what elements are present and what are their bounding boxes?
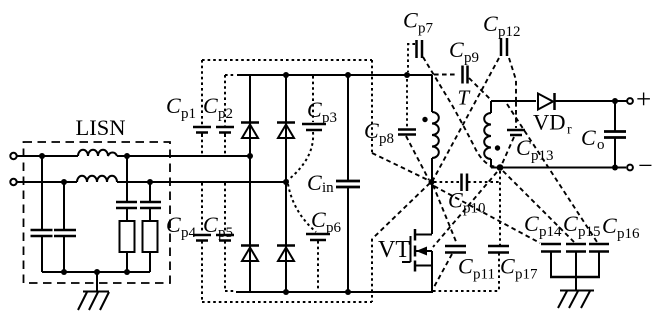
- dotted parasitic net: [202, 60, 372, 302]
- wire Cp2 bottom lead: [224, 134, 226, 155]
- LISN capacitor C1 branch wire: [41, 156, 43, 272]
- dotted box right lower vertical: [371, 239, 373, 302]
- wire Cp3 bottom lead: [288, 132, 313, 180]
- wire Cp11 top lead to node A: [433, 185, 457, 244]
- wire Cp10 left lead to node A: [434, 181, 459, 183]
- MOSFET VT gate bar: [410, 236, 412, 262]
- primary polarity dot: [422, 117, 427, 122]
- wire Cp6 bottom lead: [317, 241, 319, 291]
- wire Cp9 left lead: [434, 74, 458, 76]
- wire Cp8 bottom lead to node A: [406, 136, 429, 180]
- wire Cp13 top lead: [515, 102, 517, 128]
- svg-text:C: C: [403, 8, 418, 33]
- input terminal top: [10, 153, 16, 159]
- capacitor Cp1: [193, 127, 211, 137]
- MOSFET VT gate lead: [402, 261, 411, 263]
- svg-text:o: o: [597, 137, 605, 153]
- wire Cp12 right lead to secondary top: [509, 58, 516, 100]
- label Cp2: [203, 93, 233, 122]
- secondary winding lead bottom: [490, 159, 492, 168]
- svg-text:+: +: [636, 84, 651, 114]
- svg-text:C: C: [458, 254, 473, 279]
- wire Cp1 bottom lead: [201, 134, 203, 155]
- svg-text:p3: p3: [322, 110, 337, 126]
- label Cp7: [403, 8, 434, 37]
- node A drain convergence dot: [429, 179, 435, 185]
- capacitor Cp8: [398, 130, 416, 135]
- LISN C4-R2 link: [149, 208, 151, 221]
- DC- bottom rail: [236, 291, 433, 293]
- diode VD2 upper right: [277, 123, 295, 139]
- svg-text:p15: p15: [578, 224, 601, 240]
- wire Cp9 right lead to secondary top: [469, 78, 490, 99]
- dashed diag node A to box bottom: [372, 183, 430, 239]
- LISN capacitor C3: [116, 202, 137, 208]
- svg-text:T: T: [458, 86, 471, 110]
- label Cp5: [203, 212, 233, 241]
- capacitor Cp11: [445, 246, 466, 253]
- label Cin: [307, 170, 334, 196]
- label Cp14: [524, 211, 562, 240]
- node B secondary bottom dot: [497, 164, 504, 171]
- LISN R2 to rail: [149, 252, 151, 272]
- label Cp12: [483, 11, 521, 40]
- svg-text:C: C: [483, 11, 498, 36]
- capacitor Cp4: [193, 235, 211, 241]
- capacitor Cp14: [541, 244, 561, 252]
- label Cp11: [458, 254, 495, 283]
- svg-text:C: C: [166, 212, 181, 237]
- capacitor Cp9: [463, 66, 468, 84]
- svg-text:C: C: [448, 188, 463, 213]
- svg-text:C: C: [203, 93, 218, 118]
- svg-text:p7: p7: [418, 21, 434, 37]
- svg-text:C: C: [524, 211, 539, 236]
- wire input bottom to inductor L2: [17, 181, 77, 183]
- svg-text:LISN: LISN: [76, 115, 126, 140]
- svg-text:p2: p2: [218, 106, 233, 122]
- svg-text:VT: VT: [378, 237, 410, 263]
- svg-text:p8: p8: [379, 131, 394, 147]
- svg-text:C: C: [307, 170, 322, 195]
- wire L1 to bridge node AC1: [117, 155, 250, 157]
- svg-text:p10: p10: [463, 201, 486, 217]
- wire Cp5 bottom lead: [225, 241, 236, 291]
- wire Cp3 top lead: [312, 76, 314, 122]
- label T: [458, 86, 471, 110]
- DC+ top rail: [237, 74, 432, 76]
- secondary polarity dot: [495, 145, 500, 150]
- capacitor Cin leads: [347, 75, 349, 292]
- LISN resistor R2: [143, 221, 158, 252]
- label Cp6: [311, 207, 342, 236]
- secondary bottom wire: [491, 167, 626, 169]
- svg-text:C: C: [166, 93, 181, 118]
- LISN resistor R1: [120, 221, 135, 252]
- svg-text:p9: p9: [464, 50, 479, 66]
- node dot wire2-cap branch: [61, 179, 67, 185]
- node dot leg2 top: [283, 72, 289, 78]
- svg-text:p17: p17: [515, 267, 538, 283]
- LISN capacitor C2 branch wire: [63, 182, 65, 272]
- wire Cp6 top lead: [288, 184, 316, 232]
- capacitor Cp16: [589, 244, 609, 252]
- svg-text:p13: p13: [531, 148, 554, 164]
- svg-text:C: C: [500, 254, 515, 279]
- node dot leg2 bottom: [283, 289, 289, 295]
- svg-text:C: C: [581, 125, 596, 150]
- input terminal bottom: [10, 179, 16, 185]
- dashed diag node B to Cp15: [503, 171, 574, 242]
- node dot wire1 after L1: [124, 153, 130, 159]
- svg-text:p11: p11: [473, 267, 495, 283]
- wire Cp4 bottom lead / box bottom left: [201, 241, 203, 302]
- secondary circuit top wire: [491, 100, 536, 102]
- label Cp13: [516, 135, 554, 164]
- gnd bar right: [550, 276, 600, 278]
- LISN capacitor C4: [140, 202, 161, 208]
- transformer secondary winding: [484, 113, 491, 159]
- capacitor Cp10: [462, 174, 468, 192]
- svg-text:p16: p16: [617, 226, 640, 242]
- LISN bottom rail: [42, 271, 150, 273]
- node dot output +: [612, 98, 618, 104]
- label Cp1: [166, 93, 196, 122]
- capacitor Co leads: [614, 101, 616, 168]
- wire VDr to + node: [555, 100, 628, 102]
- inductor L1: [78, 150, 117, 156]
- node dot AC1 on leg1: [247, 153, 253, 159]
- svg-text:p5: p5: [218, 225, 233, 241]
- wire input top to inductor L1: [17, 155, 78, 157]
- capacitor Cp6: [306, 234, 330, 240]
- label minus: [638, 151, 653, 180]
- svg-text:C: C: [311, 207, 326, 232]
- transformer secondary winding lead top: [490, 101, 492, 113]
- node dot Cin bottom: [345, 289, 351, 295]
- capacitor Co: [604, 132, 626, 138]
- dashed diag box to node A: [372, 153, 430, 181]
- LISN C3-R1 link: [126, 208, 128, 221]
- Cp15 lead to gnd bar: [575, 252, 577, 278]
- wire Cp7 right lead to node B: [423, 57, 496, 167]
- svg-text:C: C: [563, 211, 578, 236]
- wire node B to Cp17 top: [499, 171, 501, 245]
- wire Cp11 bottom lead to source corner: [434, 254, 452, 287]
- capacitor Cp5: [216, 235, 234, 241]
- label VDr: [533, 110, 572, 138]
- MOSFET VT channel contacts: [414, 229, 417, 272]
- ground symbol LISN: [78, 292, 109, 311]
- svg-text:r: r: [567, 123, 572, 138]
- wire Cp2 top lead: [225, 75, 236, 126]
- svg-text:p14: p14: [539, 224, 562, 240]
- MOSFET VT source lead: [415, 251, 432, 292]
- LISN RC branch 4 wire top: [149, 182, 151, 202]
- MOSFET VT body lead with arrow: [415, 247, 432, 256]
- svg-text:p6: p6: [326, 220, 342, 236]
- capacitor Cp3: [302, 124, 326, 130]
- wire L2 to bridge node AC2: [117, 181, 286, 183]
- ground lead LISN: [96, 272, 98, 291]
- dashed source rail extension: [433, 290, 499, 292]
- svg-text:C: C: [364, 118, 379, 143]
- svg-text:p12: p12: [498, 24, 521, 40]
- capacitor Cp7: [417, 40, 423, 58]
- svg-text:in: in: [322, 180, 334, 196]
- LISN R1 to rail: [126, 252, 128, 272]
- svg-text:C: C: [307, 97, 322, 122]
- label Cp8: [364, 118, 394, 147]
- transformer primary winding: [432, 112, 439, 158]
- capacitor Cin: [336, 181, 360, 187]
- svg-text:p4: p4: [181, 225, 197, 241]
- ground symbol right: [558, 291, 594, 309]
- node dot rail C2: [61, 269, 67, 275]
- MOSFET VT drain lead: [415, 234, 432, 236]
- node dot wire1-cap branch: [39, 153, 45, 159]
- wire Cp13 bottom lead to node B: [502, 137, 514, 164]
- capacitor Cp15: [566, 244, 586, 252]
- dashed diag node A to Cp17 top: [434, 186, 540, 243]
- svg-text:C: C: [602, 213, 617, 238]
- diode VD1 upper left: [241, 123, 259, 139]
- LISN dashed box: [24, 142, 171, 283]
- dashed diag node B to source: [433, 172, 497, 247]
- wire Cp10 right lead: [468, 181, 499, 183]
- label Cp9: [449, 37, 479, 66]
- label Cp15: [563, 211, 601, 240]
- diode VD3 lower left: [241, 246, 259, 262]
- bridge leg 1: [249, 75, 251, 292]
- LISN capacitor C1: [31, 230, 53, 236]
- label VT: [378, 237, 410, 263]
- inductor L2: [77, 176, 117, 182]
- Cp14 lead to gnd bar: [550, 252, 552, 278]
- wire primary bottom to drain: [431, 158, 433, 234]
- svg-text:VD: VD: [533, 110, 566, 135]
- output + terminal: [627, 98, 633, 104]
- wire Cp12 left lead to node A: [433, 58, 499, 180]
- LISN RC branch 3 wire top: [126, 156, 128, 202]
- Cp16 lead to gnd bar: [598, 252, 600, 278]
- svg-text:p1: p1: [181, 106, 196, 122]
- wire Cp1 top lead / box left edge: [201, 60, 203, 126]
- dotted box bottom edge: [202, 301, 372, 303]
- dashed diag secondary top to Cp16: [507, 104, 597, 242]
- svg-text:C: C: [516, 135, 531, 160]
- node dot Cin top: [345, 72, 351, 78]
- dotted box right edge upper: [371, 60, 373, 153]
- ground lead right: [575, 277, 577, 291]
- label Co: [581, 125, 605, 153]
- diode VD4 lower right: [277, 246, 295, 262]
- wire Cp17 bottom lead: [498, 253, 500, 290]
- capacitor Cp17: [488, 246, 509, 253]
- svg-text:−: −: [638, 151, 653, 180]
- wire Cp4 top lead: [201, 183, 203, 233]
- node dot wire2 after L2: [147, 179, 153, 185]
- wire Cp8 top lead: [406, 79, 408, 127]
- capacitor Cp12: [501, 38, 507, 56]
- label Cp10: [448, 188, 486, 217]
- label Cp16: [602, 213, 640, 242]
- capacitor Cp13: [507, 130, 525, 135]
- dotted box top edge: [202, 59, 372, 61]
- output - terminal: [627, 165, 633, 171]
- node dot rail R1: [124, 269, 130, 275]
- node dot output -: [612, 165, 618, 171]
- label Cp4: [166, 212, 197, 241]
- node dot Cp7/Cp8 tap on rail: [404, 72, 410, 78]
- node dot rail ground: [94, 269, 100, 275]
- bridge leg 2: [285, 75, 287, 292]
- capacitor Cp2: [216, 127, 234, 137]
- wire Cp7 left lead: [408, 44, 415, 72]
- svg-text:C: C: [203, 212, 218, 237]
- node dot AC2 on leg2: [283, 179, 289, 185]
- label plus: [636, 84, 651, 114]
- LISN capacitor C2: [54, 230, 76, 236]
- label LISN: [76, 115, 126, 140]
- wire Cp5 top lead: [224, 183, 226, 233]
- label Cp17: [500, 254, 538, 283]
- diode VDr: [538, 93, 555, 110]
- wire rail corner to primary top: [431, 75, 433, 112]
- svg-text:C: C: [449, 37, 464, 62]
- label Cp3: [307, 97, 337, 126]
